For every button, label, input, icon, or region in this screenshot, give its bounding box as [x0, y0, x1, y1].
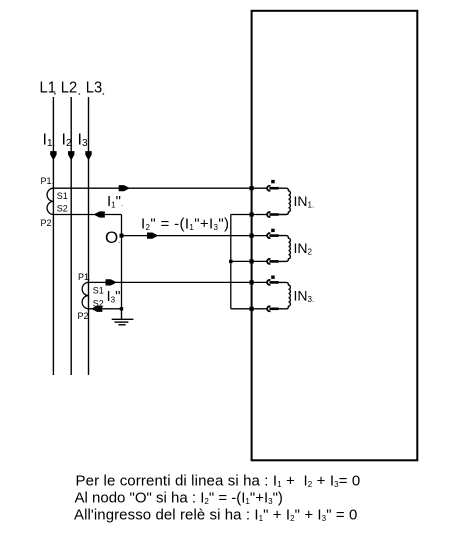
svg-text:S2: S2 [57, 203, 68, 213]
arrow I1'' right [119, 185, 130, 191]
transformer CT3 secondary loops [82, 282, 88, 308]
IN1 bottom terminal hook [267, 212, 270, 217]
arrow I1 down [50, 151, 56, 160]
IN3 coil [279, 282, 291, 308]
IN1 top terminal hook [267, 186, 270, 191]
relay box U1 [252, 11, 418, 461]
wire CT3 S2 horizontal to ground junction [89, 308, 122, 310]
svg-text:I1".: I1". [107, 193, 123, 210]
IN2 bottom terminal hook [267, 259, 270, 264]
IN2 coil [279, 236, 291, 262]
svg-text:O.: O. [105, 228, 120, 247]
svg-text:S1: S1 [57, 191, 68, 201]
node O junction dot [120, 234, 124, 238]
junction dot box edge IN2 bottom [250, 259, 254, 263]
wire bus to IN3 bottom [231, 308, 268, 310]
svg-text:P2: P2 [41, 218, 52, 228]
junction dot box edge IN2 top [250, 234, 254, 238]
transformer CT1 secondary loops [47, 188, 53, 214]
IN2 top terminal hook [267, 233, 270, 238]
ground symbol [112, 309, 134, 325]
svg-text:S1: S1 [93, 285, 104, 295]
junction dot box edge IN3 top [250, 280, 254, 284]
svg-text:L2: L2 [61, 80, 77, 97]
svg-text:P1.: P1. [41, 176, 53, 186]
IN2 top terminal bar [269, 234, 278, 237]
wire L2 line [70, 97, 72, 375]
wire vertical from CT1 S2 down to ground junction [121, 215, 123, 309]
IN3 top terminal hook [267, 280, 270, 285]
IN3 bottom terminal hook [267, 306, 270, 311]
svg-text:Al nodo "O" si ha : I2" = -(I1: Al nodo "O" si ha : I2" = -(I1"+I3") [75, 490, 283, 507]
IN1 coil [279, 188, 291, 214]
svg-text:All'ingresso del relè si ha :: All'ingresso del relè si ha : I1" + I2" … [74, 507, 357, 524]
junction dot ground node [120, 307, 123, 310]
arrow I2 down [68, 151, 74, 160]
wire O to IN2 top [122, 235, 268, 237]
arrow I2'' right [147, 233, 158, 239]
wire bus to IN2 bottom [231, 260, 268, 262]
wire L1 line [52, 97, 54, 375]
IN1 polarity dot [271, 180, 275, 183]
wire star-point bus vertical [230, 215, 232, 309]
IN2 polarity dot [271, 229, 275, 232]
svg-text:I2" = -(I1"+I3").: I2" = -(I1"+I3"). [141, 216, 232, 233]
junction dot box edge IN1 bottom [250, 212, 254, 216]
arrow on CT1 S2 wire left [94, 211, 105, 217]
svg-text:P1.: P1. [78, 272, 90, 282]
wire CT1 S1 to IN1 top [53, 187, 267, 189]
arrow I3'' right [106, 279, 117, 285]
junction dot box edge IN3 bottom [250, 307, 254, 311]
wire CT1 S2 horizontal [53, 214, 121, 216]
IN3 top terminal bar [269, 281, 278, 284]
junction dot bus/IN2 bottom [229, 260, 232, 263]
IN3 bottom terminal bar [269, 308, 278, 311]
arrow I3 down [85, 151, 91, 160]
svg-text:L3: L3 [86, 80, 102, 97]
wire bus to IN1 bottom [231, 214, 268, 216]
winding IN2 [250, 229, 313, 264]
svg-text:I3".: I3". [107, 288, 123, 305]
arrow on CT3 S2 wire left [91, 306, 102, 312]
wire L3 line [88, 97, 90, 375]
winding IN1 [250, 180, 315, 217]
IN1 bottom terminal bar [269, 213, 278, 216]
junction dot box edge IN1 top [250, 186, 254, 190]
svg-text:P2: P2 [78, 311, 89, 321]
svg-text:L1: L1 [40, 80, 56, 97]
wire CT3 S1 to IN3 top [89, 281, 268, 283]
IN3 polarity dot [271, 276, 275, 279]
IN1 top terminal bar [269, 187, 278, 190]
winding IN3 [250, 276, 315, 312]
IN2 bottom terminal bar [269, 260, 278, 263]
svg-text:Per le correnti di linea si ha: Per le correnti di linea si ha : I1 + I2… [76, 473, 361, 490]
